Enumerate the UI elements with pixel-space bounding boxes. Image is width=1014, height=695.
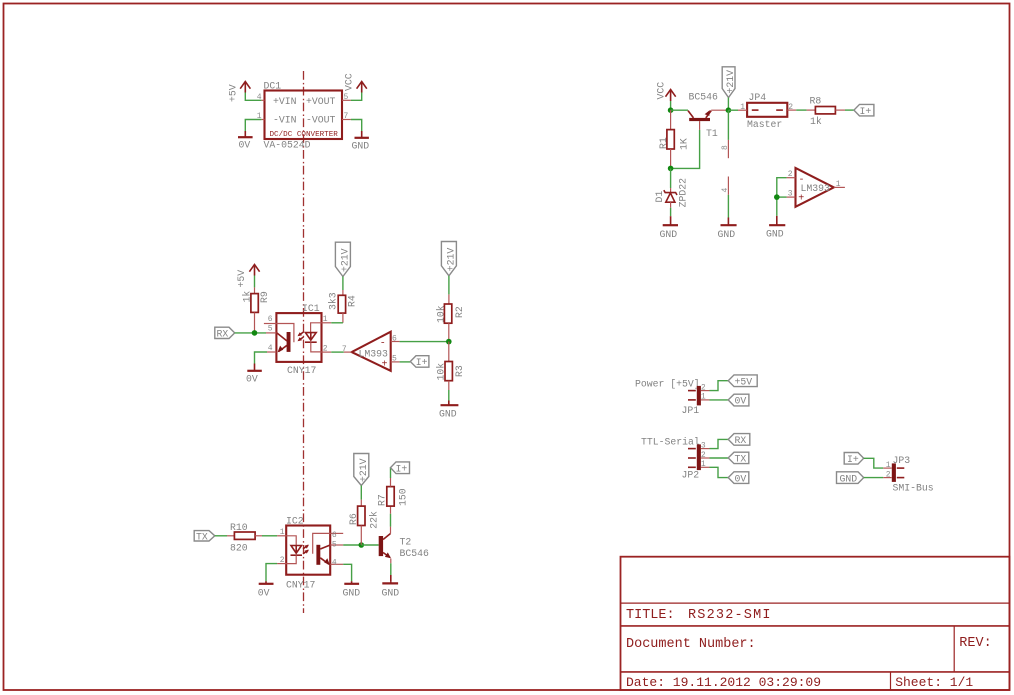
tag I+ (R8) bbox=[854, 104, 874, 117]
svg-text:IC2: IC2 bbox=[286, 515, 304, 526]
junction node divider bbox=[446, 339, 452, 345]
wire R3 to GND bbox=[448, 381, 450, 390]
supply tag +21V (R4) bbox=[335, 242, 350, 276]
svg-text:Master: Master bbox=[747, 119, 782, 130]
DC/DC converter DC1 bbox=[264, 81, 343, 151]
ground GND (DC1) bbox=[352, 131, 370, 152]
resistor R9 1k bbox=[241, 291, 270, 313]
svg-text:-: - bbox=[380, 339, 386, 350]
wire GND to JP3.2 bbox=[864, 477, 884, 479]
wire T2 emitter to GND bbox=[390, 559, 392, 564]
wire comparator out to IC1 pin2 bbox=[331, 351, 343, 353]
svg-text:1K: 1K bbox=[679, 138, 690, 150]
IC1 pin 2 bbox=[322, 344, 332, 353]
wire node to T2 base bbox=[361, 544, 378, 546]
svg-text:+5V: +5V bbox=[735, 377, 753, 388]
svg-text:6: 6 bbox=[268, 315, 273, 324]
wire -VOUT to GND bbox=[351, 120, 362, 132]
svg-text:+21V: +21V bbox=[446, 248, 457, 272]
svg-text:+21V: +21V bbox=[340, 248, 351, 272]
svg-text:+21V: +21V bbox=[358, 458, 369, 482]
svg-text:DC1: DC1 bbox=[264, 81, 282, 92]
svg-text:JP1: JP1 bbox=[682, 405, 700, 416]
svg-text:6: 6 bbox=[332, 531, 337, 540]
svg-text:BC546: BC546 bbox=[400, 548, 430, 559]
svg-text:RS232-SMI: RS232-SMI bbox=[688, 608, 772, 623]
svg-text:DC/DC CONVERTER: DC/DC CONVERTER bbox=[270, 131, 339, 139]
ground 0V (IC2) bbox=[258, 581, 274, 599]
resistor R3 10k bbox=[435, 362, 465, 381]
JP2 pin 3 bbox=[701, 442, 710, 451]
svg-text:3: 3 bbox=[788, 190, 793, 199]
wire pins 2+3 to GND bbox=[777, 178, 787, 225]
wire TX to R10 bbox=[215, 535, 227, 537]
wire R4 to IC1 pin1 bbox=[331, 313, 343, 323]
IC1 LED (right) bbox=[305, 323, 322, 352]
svg-text:2: 2 bbox=[280, 556, 285, 565]
lead R1 to node2 bbox=[670, 149, 672, 168]
svg-text:GND: GND bbox=[352, 141, 370, 152]
JP3 pin 1 bbox=[883, 461, 892, 470]
resistor R7 150 bbox=[377, 487, 409, 507]
svg-text:TX: TX bbox=[735, 454, 747, 465]
resistor R6 22k bbox=[348, 506, 379, 529]
wire node to T1 emitter bbox=[671, 109, 688, 111]
svg-text:5: 5 bbox=[392, 355, 397, 364]
junction node +21V/JP4 bbox=[726, 107, 732, 113]
svg-text:R4: R4 bbox=[346, 295, 357, 307]
svg-text:1: 1 bbox=[323, 315, 328, 324]
LM393B pin 2 bbox=[787, 170, 796, 179]
LM393B pin 3 bbox=[787, 190, 796, 199]
svg-text:6: 6 bbox=[392, 334, 397, 343]
svg-text:T2: T2 bbox=[400, 537, 412, 548]
svg-text:JP2: JP2 bbox=[682, 470, 700, 481]
wire +VOUT to VCC bbox=[351, 93, 362, 101]
IC2 pin 5 bbox=[330, 541, 343, 550]
svg-text:1k: 1k bbox=[810, 116, 822, 127]
wire D1 to GND bbox=[670, 202, 672, 208]
svg-text:0V: 0V bbox=[735, 396, 747, 407]
comparator pin 5 bbox=[391, 355, 400, 364]
supply tag +21V (T1/JP4) bbox=[722, 67, 736, 98]
resistor R1 1K bbox=[658, 130, 690, 150]
ground GND (R3) bbox=[439, 405, 458, 419]
svg-text:R7: R7 bbox=[377, 494, 388, 506]
svg-text:GND: GND bbox=[840, 473, 858, 484]
svg-text:5: 5 bbox=[344, 93, 349, 102]
IC2 LED (left) bbox=[286, 536, 302, 564]
wire T2 collector to R7 bbox=[390, 527, 392, 534]
svg-text:7: 7 bbox=[344, 112, 349, 121]
svg-text:Document Number:: Document Number: bbox=[626, 637, 756, 652]
svg-text:-VOUT: -VOUT bbox=[306, 115, 336, 126]
svg-text:2: 2 bbox=[701, 451, 706, 460]
wire node to D1 bbox=[670, 168, 672, 188]
wire JP2.3 to RX tag bbox=[710, 439, 729, 448]
svg-text:R9: R9 bbox=[259, 291, 270, 303]
svg-text:R2: R2 bbox=[454, 306, 465, 318]
svg-text:T1: T1 bbox=[706, 128, 718, 139]
svg-text:0V: 0V bbox=[258, 588, 270, 599]
svg-text:LM393: LM393 bbox=[801, 183, 831, 194]
svg-text:-VIN: -VIN bbox=[273, 115, 297, 126]
svg-text:RX: RX bbox=[217, 329, 229, 340]
svg-text:JP3: JP3 bbox=[893, 455, 911, 466]
IC1 pin 1 bbox=[322, 315, 332, 324]
JP1 pin 1 bbox=[701, 392, 710, 401]
svg-text:+VIN: +VIN bbox=[273, 96, 297, 107]
svg-text:GND: GND bbox=[343, 588, 361, 599]
svg-text:VA-0524D: VA-0524D bbox=[264, 140, 311, 151]
resistor R8 1k bbox=[810, 95, 836, 127]
title block frame bbox=[621, 557, 1010, 690]
svg-text:RX: RX bbox=[735, 435, 747, 446]
svg-text:4: 4 bbox=[332, 558, 337, 567]
svg-text:IC1: IC1 bbox=[302, 303, 320, 314]
IC2 pin 2 bbox=[277, 556, 286, 565]
supply tag +21V (R6) bbox=[354, 454, 369, 486]
supply VCC arrow (T1) bbox=[655, 82, 675, 101]
ground GND (JP4) bbox=[718, 225, 737, 240]
svg-text:+21V: +21V bbox=[725, 70, 736, 94]
JP4 pin 8 stub bbox=[721, 110, 730, 158]
svg-text:4: 4 bbox=[268, 344, 273, 353]
isolation barrier dashed line bbox=[303, 71, 305, 613]
svg-text:3: 3 bbox=[701, 442, 706, 451]
op-amp comparator M393 (IC3A) bbox=[352, 332, 391, 371]
resistor R10 820 bbox=[230, 522, 255, 553]
svg-text:1: 1 bbox=[886, 461, 891, 470]
transistor T2 BC546 bbox=[379, 534, 429, 559]
junction node RX/R9 bbox=[252, 330, 258, 336]
svg-text:0V: 0V bbox=[239, 140, 251, 151]
wire JP2.2 to TX tag bbox=[710, 457, 729, 459]
op-amp LM393 unit B bbox=[796, 168, 834, 207]
wire JP4 to R8 bbox=[796, 109, 806, 111]
jumper JP4 Master bbox=[747, 92, 787, 130]
wire +5V to R9 bbox=[254, 276, 256, 288]
svg-text:VCC: VCC bbox=[655, 82, 666, 100]
optocoupler IC1 CNY17 bbox=[276, 303, 321, 376]
svg-text:1k: 1k bbox=[241, 291, 252, 303]
wire R8 to I+ tag bbox=[835, 109, 845, 111]
svg-text:8: 8 bbox=[721, 145, 730, 150]
tag I+ (R7) bbox=[391, 462, 410, 474]
optocoupler IC2 CNY17 bbox=[286, 515, 330, 590]
svg-text:LM393: LM393 bbox=[359, 348, 389, 359]
svg-text:+VOUT: +VOUT bbox=[306, 96, 336, 107]
tag GND (JP3) bbox=[837, 472, 864, 485]
svg-text:R3: R3 bbox=[454, 365, 465, 377]
svg-text:TITLE:: TITLE: bbox=[626, 608, 675, 623]
JP1 pin 2 bbox=[701, 384, 710, 393]
JP4 pin 1 bbox=[728, 103, 747, 112]
pin 4 (+VIN) bbox=[257, 93, 265, 102]
wire +21V to R6 bbox=[360, 486, 362, 500]
resistor R4 3k3 bbox=[328, 292, 358, 313]
svg-text:0V: 0V bbox=[246, 374, 258, 385]
wire 0V to -VIN bbox=[245, 120, 261, 132]
svg-text:GND: GND bbox=[660, 229, 678, 240]
tag +5V (JP1) bbox=[728, 375, 757, 388]
resistor R2 10k bbox=[435, 304, 465, 323]
svg-text:2: 2 bbox=[788, 170, 793, 179]
IC1 pin 6 bbox=[264, 315, 277, 324]
document number row bbox=[626, 636, 992, 652]
svg-text:1: 1 bbox=[836, 180, 841, 189]
svg-text:1: 1 bbox=[280, 528, 285, 537]
transistor T1 BC546 bbox=[688, 92, 718, 140]
lead R6 to node bbox=[360, 526, 362, 546]
ground GND (D1) bbox=[660, 225, 679, 240]
wire pin6 to divider node bbox=[400, 341, 449, 343]
ground 0V (IC1) bbox=[246, 364, 262, 385]
comparator pin 6 bbox=[391, 334, 400, 343]
svg-text:GND: GND bbox=[382, 588, 400, 599]
junction node base T2 bbox=[359, 542, 365, 548]
wire +5V to +VIN bbox=[245, 93, 261, 101]
lead R9 to RX node bbox=[254, 312, 256, 333]
wire T1 right to +21V node bbox=[711, 109, 728, 111]
LM393B pin 1 output bbox=[834, 180, 845, 189]
title text bbox=[626, 608, 772, 623]
svg-text:SMI-Bus: SMI-Bus bbox=[893, 483, 934, 494]
pin 7 (-VOUT) bbox=[342, 112, 351, 121]
svg-text:TTL-Serial: TTL-Serial bbox=[641, 436, 700, 447]
ground 0V (DC1) bbox=[238, 131, 253, 151]
svg-text:GND: GND bbox=[439, 409, 457, 420]
wire VCC to node bbox=[670, 101, 672, 110]
svg-text:+5V: +5V bbox=[236, 270, 247, 288]
svg-text:TX: TX bbox=[196, 531, 208, 542]
svg-text:R6: R6 bbox=[348, 513, 359, 525]
tag TX (input) bbox=[194, 531, 215, 543]
wire R10 to IC2 pin1 bbox=[255, 535, 262, 537]
pin 5 (+VOUT) bbox=[342, 93, 351, 102]
svg-text:820: 820 bbox=[230, 542, 248, 553]
svg-text:ZPD22: ZPD22 bbox=[677, 178, 688, 208]
tag RX (input) bbox=[215, 327, 235, 339]
lead node to R3 bbox=[448, 342, 450, 362]
svg-text:I+: I+ bbox=[860, 106, 872, 117]
pin header JP2 TTL-Serial bbox=[641, 436, 701, 480]
svg-text:2: 2 bbox=[788, 103, 793, 112]
tag TX (JP2) bbox=[728, 452, 749, 465]
svg-text:JP4: JP4 bbox=[749, 92, 767, 103]
svg-text:+: + bbox=[798, 194, 804, 205]
svg-text:GND: GND bbox=[718, 229, 736, 240]
tag 0V (JP1) bbox=[728, 394, 749, 407]
wire JP1.2 to +5V tag bbox=[710, 381, 729, 391]
svg-text:2: 2 bbox=[886, 471, 891, 480]
svg-text:+: + bbox=[382, 359, 388, 370]
ground GND (LM393B) bbox=[766, 225, 785, 239]
svg-text:Date: 19.11.2012 03:29:09: Date: 19.11.2012 03:29:09 bbox=[626, 675, 821, 690]
supply +5V arrow (DC1) bbox=[227, 82, 250, 103]
IC2 phototransistor (right) bbox=[313, 533, 331, 565]
zener diode D1 ZPD22 bbox=[654, 178, 688, 208]
wire +21V to node bbox=[727, 98, 729, 111]
JP4 pin 2 bbox=[787, 103, 796, 112]
svg-text:1: 1 bbox=[701, 392, 706, 401]
IC1 pin 4 bbox=[267, 344, 276, 353]
supply tag +21V (R2) bbox=[441, 242, 456, 276]
svg-text:CNY17: CNY17 bbox=[287, 365, 317, 376]
lead node to R1 bbox=[670, 110, 672, 129]
svg-text:4: 4 bbox=[721, 188, 730, 193]
tag RX (JP2) bbox=[728, 434, 750, 447]
wire I+ to JP3.1 bbox=[864, 458, 884, 468]
pin header JP3 SMI-Bus bbox=[892, 455, 934, 494]
wire pin5 to I+ tag bbox=[400, 361, 411, 363]
supply VCC arrow bbox=[344, 73, 367, 92]
IC1 light arrows bbox=[298, 332, 304, 341]
svg-text:I+: I+ bbox=[416, 357, 428, 368]
svg-text:REV:: REV: bbox=[959, 636, 991, 651]
svg-text:0V: 0V bbox=[735, 473, 747, 484]
svg-text:+5V: +5V bbox=[227, 84, 238, 102]
JP2 pin 2 bbox=[701, 451, 710, 460]
IC2 pin 4 bbox=[330, 558, 343, 567]
tag 0V (JP2) bbox=[728, 472, 749, 485]
junction node VCC/R1/T1 bbox=[668, 107, 674, 113]
comparator output pin 7 bbox=[342, 345, 352, 354]
svg-text:5: 5 bbox=[268, 324, 273, 333]
svg-text:R8: R8 bbox=[810, 95, 822, 106]
ground GND (IC2) bbox=[343, 581, 361, 599]
svg-text:CNY17: CNY17 bbox=[286, 579, 316, 590]
svg-text:2: 2 bbox=[323, 344, 328, 353]
IC2 pin 6 bbox=[330, 531, 343, 540]
tag I+ (comparator) bbox=[410, 356, 429, 369]
svg-text:I+: I+ bbox=[847, 454, 859, 465]
svg-text:10k: 10k bbox=[435, 363, 446, 381]
svg-text:R1: R1 bbox=[658, 137, 669, 149]
wire R7 to I+ tag bbox=[390, 468, 392, 478]
wire IC2 pin5 to node bbox=[343, 544, 361, 546]
pin 1 (-VIN) bbox=[257, 112, 265, 121]
IC2 light arrows bbox=[303, 545, 309, 554]
svg-text:GND: GND bbox=[766, 229, 784, 240]
svg-text:D1: D1 bbox=[654, 191, 665, 203]
wire RX to IC1 pin5 bbox=[235, 332, 266, 334]
junction node R1/D1 bbox=[668, 166, 674, 172]
lead R2 to node bbox=[448, 323, 450, 341]
IC2 pin 1 bbox=[277, 528, 286, 537]
JP2 pin 1 bbox=[701, 460, 710, 469]
JP4 pin 4 stub to GND bbox=[721, 177, 730, 225]
supply +5V arrow (R9) bbox=[236, 265, 260, 288]
svg-text:Sheet: 1/1: Sheet: 1/1 bbox=[895, 675, 973, 690]
wire T1 base down/left to R1 node bbox=[671, 121, 700, 168]
svg-text:5: 5 bbox=[332, 541, 337, 550]
svg-text:R10: R10 bbox=[230, 522, 248, 533]
IC1 pin 5 bbox=[266, 324, 276, 333]
wire JP1.1 to 0V tag bbox=[710, 399, 729, 401]
junction node LM393B inputs bbox=[774, 194, 780, 200]
wire +21V to R2 bbox=[448, 276, 450, 295]
svg-text:2: 2 bbox=[701, 384, 706, 393]
IC1 phototransistor (left) bbox=[276, 324, 294, 353]
pin header JP1 Power bbox=[635, 378, 701, 416]
ground GND (T2) bbox=[382, 581, 400, 599]
svg-text:3k3: 3k3 bbox=[328, 292, 339, 310]
svg-text:22k: 22k bbox=[369, 511, 380, 529]
tag I+ (JP3) bbox=[844, 453, 864, 466]
wire IC2 pin2 to 0V bbox=[266, 564, 277, 582]
svg-text:BC546: BC546 bbox=[689, 92, 719, 103]
date row bbox=[626, 675, 973, 690]
svg-text:150: 150 bbox=[397, 488, 408, 506]
wire IC2 pin4 to GND bbox=[343, 564, 351, 581]
svg-text:VCC: VCC bbox=[344, 73, 355, 91]
svg-text:10k: 10k bbox=[435, 305, 446, 323]
wire JP2.1 to 0V tag bbox=[710, 467, 729, 477]
wire +21V to R4 bbox=[342, 277, 344, 291]
svg-text:I+: I+ bbox=[396, 463, 408, 474]
svg-text:-: - bbox=[799, 175, 805, 186]
wire IC1 pin4 to 0V bbox=[255, 352, 268, 364]
svg-text:1: 1 bbox=[701, 460, 706, 469]
svg-text:1: 1 bbox=[740, 103, 745, 112]
JP3 pin 2 bbox=[883, 471, 892, 480]
svg-text:Power [+5V]: Power [+5V] bbox=[635, 378, 700, 389]
